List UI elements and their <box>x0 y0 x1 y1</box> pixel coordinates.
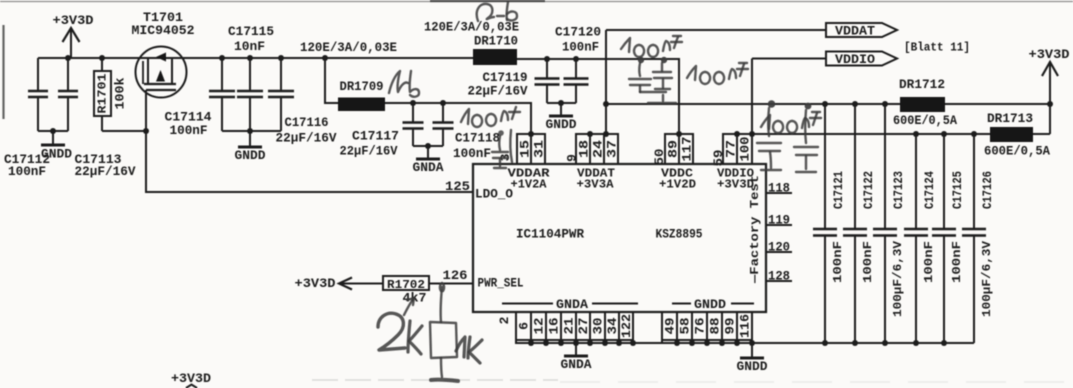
svg-text:100nF: 100nF <box>861 241 875 283</box>
svg-text:100nF: 100nF <box>170 123 208 138</box>
svg-text:116: 116 <box>738 314 753 338</box>
svg-text:VDDIO: VDDIO <box>835 53 876 67</box>
svg-text:100µF/6,3V: 100µF/6,3V <box>980 240 994 317</box>
svg-text:C17121: C17121 <box>832 171 846 209</box>
svg-text:120E/3A/0,03E: 120E/3A/0,03E <box>424 20 519 35</box>
svg-text:100nF: 100nF <box>950 241 964 283</box>
pin 77 <box>723 134 737 164</box>
pin 6 <box>516 312 531 340</box>
wire: rail through DR1713 <box>752 133 990 135</box>
capacitor C17116 <box>280 58 282 91</box>
ground GNDD (under C17114/15/16) <box>249 131 251 147</box>
svg-text:34: 34 <box>605 317 620 334</box>
svg-text:MIC94052: MIC94052 <box>132 23 195 38</box>
svg-text:100nF: 100nF <box>453 146 491 161</box>
handwriting: 100nF (second) <box>687 66 696 80</box>
svg-text:+1V2A: +1V2A <box>511 178 548 192</box>
svg-text:99: 99 <box>723 317 738 334</box>
svg-text:KSZ8895: KSZ8895 <box>656 227 703 242</box>
svg-text:22µF/16V: 22µF/16V <box>468 84 528 99</box>
svg-text:GNDD: GNDD <box>235 148 266 163</box>
pin 34 <box>605 312 619 340</box>
pin 15 <box>517 134 531 164</box>
wire: R1701 bottom to gate node <box>102 130 146 132</box>
svg-text:22µF/16V: 22µF/16V <box>340 144 398 159</box>
pin 122 <box>619 312 633 340</box>
svg-text:100nF: 100nF <box>8 164 46 179</box>
handwriting: 2k correction at R1702 <box>378 313 405 350</box>
svg-text:—Factory Test: —Factory Test <box>748 175 762 284</box>
pin 88 <box>707 312 722 340</box>
handwriting: mark above DR1710 <box>477 4 494 21</box>
svg-text:100µF/6,3V: 100µF/6,3V <box>891 240 905 317</box>
svg-text:C17118: C17118 <box>455 131 500 146</box>
pin 21 <box>561 312 576 340</box>
scan artifact: top page edge line <box>0 1 1073 3</box>
svg-text:31: 31 <box>532 140 547 158</box>
pin 24 <box>590 134 604 164</box>
handwriting: 100nF sketch at C17120 <box>621 38 630 52</box>
svg-text:22µF/16V: 22µF/16V <box>276 131 337 146</box>
wire: C17119/C17120 gnd bracket <box>547 102 576 104</box>
ground GNDA (under C17117/C17118) <box>427 146 429 159</box>
svg-text:16: 16 <box>547 317 562 334</box>
pin 99 <box>722 312 737 340</box>
handwriting: 100nF sketch at VDDIO pins <box>761 115 770 129</box>
pin 31 <box>531 134 545 164</box>
handwriting: scrawl over C17118 <box>461 109 469 124</box>
svg-text:+1V2D: +1V2D <box>659 178 696 192</box>
svg-text:100k: 100k <box>114 77 128 110</box>
svg-text:58: 58 <box>678 317 693 334</box>
pin 18 <box>576 134 590 164</box>
pin 119 <box>766 224 792 226</box>
svg-text:21: 21 <box>562 317 577 334</box>
capacitor C17124 100nF <box>915 134 917 229</box>
svg-text:600E/0,5A: 600E/0,5A <box>893 114 957 128</box>
svg-text:600E/0,5A: 600E/0,5A <box>984 145 1050 159</box>
capacitor C17125 100nF <box>943 134 945 229</box>
svg-text:88: 88 <box>708 317 723 334</box>
capacitor C17119 <box>546 59 548 79</box>
ground GNDA (bottom) <box>575 343 577 356</box>
svg-text:DR1712: DR1712 <box>899 77 945 92</box>
op IC U: IC1104PWR KSZ8895 outline <box>473 164 766 312</box>
pin 16 <box>546 312 561 340</box>
svg-text:30: 30 <box>591 317 606 334</box>
wire: DR1710 output toward VDDC <box>517 59 679 134</box>
svg-text:PWR_SEL: PWR_SEL <box>478 276 524 291</box>
pin 58 <box>677 312 692 340</box>
svg-text:+3V3D: +3V3D <box>53 13 94 28</box>
capacitor C17113 <box>67 58 69 91</box>
svg-text:117: 117 <box>680 137 695 162</box>
svg-text:+3V3D: +3V3D <box>1029 47 1070 62</box>
net flag VDDIO <box>826 52 897 66</box>
wire: DR1709 to VDDAR pins <box>385 103 531 134</box>
handwriting: mark beside DR1709 <box>389 71 408 93</box>
svg-text:125: 125 <box>445 179 470 194</box>
svg-text:DR1709: DR1709 <box>340 79 384 94</box>
pin 12 <box>531 312 546 340</box>
capacitor C17122 100nF <box>854 104 856 229</box>
svg-text:IC1104PWR: IC1104PWR <box>516 227 584 242</box>
svg-text:C17123: C17123 <box>892 171 906 209</box>
pin 116 <box>737 312 752 340</box>
handwriting: added 1k resistor <box>440 283 444 291</box>
wire: branch down to DR1709 <box>325 58 338 103</box>
svg-text:C17125: C17125 <box>951 171 965 209</box>
svg-text:12: 12 <box>532 317 547 334</box>
wire: PWR_SEL pull-up <box>339 278 352 290</box>
svg-text:DR1713: DR1713 <box>987 111 1033 126</box>
wire: ground rail under IC <box>516 340 974 343</box>
capacitor C17112 <box>37 58 39 91</box>
svg-text:49: 49 <box>663 317 678 334</box>
svg-text:100nF: 100nF <box>831 241 845 283</box>
pin 49 <box>662 312 677 340</box>
capacitor C17121 100nF <box>824 104 826 229</box>
svg-text:C17122: C17122 <box>862 171 876 209</box>
wire: +3V3D rail to T1701 source <box>38 57 473 59</box>
pin 120 <box>766 251 792 253</box>
svg-text:LDO_O: LDO_O <box>475 187 513 202</box>
svg-text:122: 122 <box>619 314 634 338</box>
scan artifact: bottom faint band <box>312 379 558 381</box>
svg-text:VDDAT: VDDAT <box>835 25 876 39</box>
svg-text:119: 119 <box>768 213 790 228</box>
svg-text:DR1710: DR1710 <box>474 34 518 49</box>
svg-text:126: 126 <box>443 268 468 283</box>
pin 30 <box>590 312 605 340</box>
text GNDA (IC bottom) <box>502 303 553 305</box>
svg-text:+3V3D: +3V3D <box>295 276 336 291</box>
wire: VDDAT net (flag to pins) <box>606 29 826 31</box>
svg-text:100nF: 100nF <box>922 241 936 283</box>
wire: T1701 gate lead down <box>145 90 147 131</box>
svg-text:R1701: R1701 <box>96 74 110 114</box>
svg-text:118: 118 <box>768 181 790 196</box>
capacitor C17126 100uF/6,3V <box>973 134 975 229</box>
wire: 3V3D rail through DR1712 to VDDAT/VDDIO pins <box>606 103 900 105</box>
svg-text:128: 128 <box>768 269 790 284</box>
svg-text:120: 120 <box>768 240 790 255</box>
pin 89 <box>665 134 679 164</box>
pin 37 <box>604 134 618 164</box>
wire: C17112/C17113 gnd bracket <box>38 130 68 132</box>
svg-text:R1702: R1702 <box>387 278 425 292</box>
svg-text:27: 27 <box>576 318 591 335</box>
svg-text:100: 100 <box>738 136 753 161</box>
capacitor C17123 100uF/6,3V <box>884 104 886 229</box>
pin 128 <box>766 280 792 282</box>
svg-text:GNDD: GNDD <box>694 298 727 312</box>
svg-text:GNDD: GNDD <box>546 117 577 132</box>
resistor R1702 4k7 <box>383 276 429 290</box>
capacitor C17115 <box>249 58 251 91</box>
svg-text:10nF: 10nF <box>234 39 265 54</box>
scan artifact: left page edge line <box>2 25 4 119</box>
svg-text:76: 76 <box>693 317 708 334</box>
svg-text:C17116: C17116 <box>285 115 329 130</box>
svg-text:GNDD: GNDD <box>737 359 768 374</box>
svg-text:GNDA: GNDA <box>413 160 444 175</box>
pin 117 <box>679 134 693 164</box>
svg-text:2: 2 <box>497 316 512 324</box>
svg-text:C17124: C17124 <box>923 171 937 209</box>
svg-text:GNDD: GNDD <box>41 147 72 162</box>
svg-text:C17117: C17117 <box>352 129 399 144</box>
pin 100 <box>737 134 752 164</box>
svg-text:C17120: C17120 <box>555 25 601 40</box>
wire: VDDIO net (flag to pins) <box>752 58 826 60</box>
svg-text:6: 6 <box>517 322 532 330</box>
ground GNDD (under C17112/C17113) <box>52 131 54 144</box>
capacitor C17114 <box>221 58 223 91</box>
svg-text:100nF: 100nF <box>562 40 599 55</box>
ground GNDD (under C17119/C17120) <box>560 103 562 116</box>
svg-text:C17115: C17115 <box>228 24 274 39</box>
svg-text:37: 37 <box>605 140 620 158</box>
pin 27 <box>576 312 590 340</box>
net flag VDDAT <box>826 23 897 37</box>
capacitor C17120 <box>575 59 577 79</box>
pin 76 <box>692 312 707 340</box>
wire: trio gnd bracket <box>222 130 281 132</box>
text GNDD (IC bottom) <box>672 303 691 305</box>
svg-text:C17126: C17126 <box>981 171 995 209</box>
svg-text:120E/3A/0,03E: 120E/3A/0,03E <box>300 40 397 55</box>
svg-text:22µF/16V: 22µF/16V <box>75 164 136 179</box>
wire: C17117/C17118 gnd bracket <box>413 145 443 147</box>
pin 118 <box>766 192 792 194</box>
svg-text:[Blatt 11]: [Blatt 11] <box>904 41 970 55</box>
svg-text:GNDA: GNDA <box>561 357 592 372</box>
ground GNDD (bottom) <box>751 343 753 358</box>
capacitor C17117 <box>412 103 414 123</box>
svg-text:+3V3A: +3V3A <box>577 178 615 192</box>
wire: LDO_O net from T1701 gate to pin 125 <box>146 131 473 192</box>
svg-text:GNDA: GNDA <box>556 298 589 312</box>
resistor R1701 <box>101 58 103 71</box>
capacitor C17118 <box>442 103 444 123</box>
